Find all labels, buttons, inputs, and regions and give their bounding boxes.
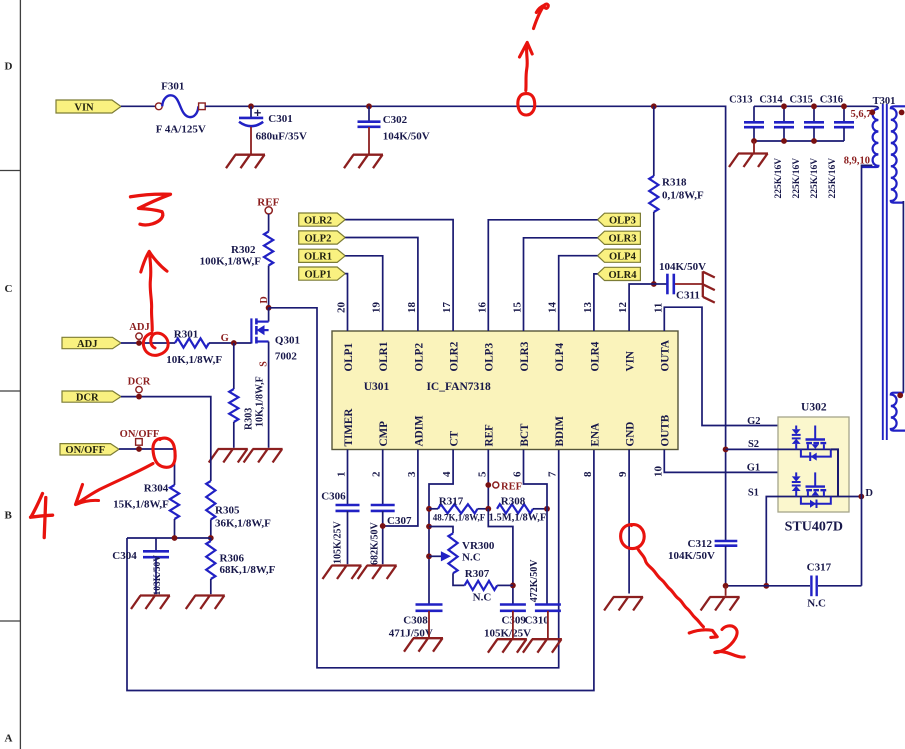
svg-text:OLR4: OLR4: [589, 341, 601, 371]
IC U302 body: [778, 417, 849, 512]
fuse F301 right pad: [199, 103, 206, 110]
ground R303: [209, 449, 248, 463]
transistor Q301: [268, 308, 270, 322]
ground C311 rotated: [703, 271, 715, 302]
annotation red arrow from ON/OFF: [76, 464, 154, 505]
capacitor C302: [368, 106, 370, 121]
annotation red 3: [131, 194, 171, 225]
junction dots capacitor bank: [781, 103, 787, 109]
capacitor C310: [535, 603, 561, 606]
net label ON/OFF: [60, 444, 119, 455]
wire OLP1 to pin: [345, 274, 347, 331]
svg-text:225K/16V: 225K/16V: [792, 158, 802, 199]
node junction S1: [763, 583, 769, 589]
node junction R307 right: [510, 583, 516, 589]
transformer T301 primary winding: [862, 109, 879, 167]
svg-text:17: 17: [441, 302, 453, 314]
svg-text:S: S: [258, 361, 269, 367]
resistor R308: [497, 504, 533, 513]
wire OLP2 to pin: [345, 238, 418, 332]
svg-text:G: G: [221, 333, 229, 344]
node junction pin3/C307: [380, 523, 386, 529]
resistor R301: [175, 338, 209, 347]
svg-text:OLP2: OLP2: [305, 233, 332, 244]
svg-text:225K/16V: 225K/16V: [810, 158, 820, 199]
wire OLP3 to pin: [488, 220, 597, 331]
svg-text:OLP1: OLP1: [343, 343, 355, 372]
svg-text:C302: C302: [383, 114, 408, 126]
wire capacitor bank bottom bus: [754, 140, 844, 142]
node junction C312/ground: [723, 583, 729, 589]
wire pin6 BCT jog: [524, 450, 548, 509]
svg-text:36K,1/8W,F: 36K,1/8W,F: [215, 517, 271, 529]
potentiometer VR300: [448, 533, 457, 573]
annotation red circle on ADJ: [143, 333, 168, 355]
resistor R305: [206, 481, 215, 519]
svg-text:OLP3: OLP3: [484, 343, 496, 372]
svg-text:7002: 7002: [275, 351, 298, 363]
svg-text:REF: REF: [501, 482, 522, 493]
annotation red arrow to ADJ: [141, 251, 167, 330]
transformer secondary upper winding: [891, 106, 905, 202]
annotation red rect on ON/OFF: [153, 438, 175, 467]
net label OLR3: [598, 231, 641, 244]
ground capacitor bank: [729, 154, 768, 168]
fuse F301 left pad: [155, 103, 162, 110]
svg-text:C312: C312: [688, 538, 713, 550]
ground Q301 source: [244, 449, 283, 463]
node junction ON/OFF pad: [136, 446, 142, 452]
svg-text:OLR1: OLR1: [304, 252, 332, 263]
wire OLR4 to pin: [594, 274, 598, 331]
wire C301 to ground: [250, 127, 252, 155]
svg-text:C314: C314: [759, 94, 783, 105]
svg-text:T301: T301: [873, 96, 896, 107]
svg-text:OLR3: OLR3: [519, 341, 531, 371]
svg-text:C304: C304: [112, 550, 137, 562]
resistor R307: [465, 581, 498, 590]
svg-text:DCR: DCR: [128, 376, 151, 387]
net label OLP2: [299, 231, 346, 244]
svg-text:C306: C306: [321, 491, 346, 503]
annotation red arrow to 2: [638, 549, 717, 638]
svg-text:1.5M,1/8W,F: 1.5M,1/8W,F: [489, 513, 547, 524]
wire ADJ row: [121, 342, 175, 344]
wire top rail: [205, 105, 725, 107]
annotation red circle on rail: [518, 94, 535, 115]
svg-text:OLP4: OLP4: [609, 252, 637, 263]
svg-text:R304: R304: [144, 483, 169, 495]
svg-text:OLP4: OLP4: [554, 343, 566, 372]
svg-text:105K/25V: 105K/25V: [484, 628, 531, 640]
svg-text:3: 3: [406, 471, 418, 477]
svg-text:N.C: N.C: [473, 592, 492, 604]
svg-text:F 4A/125V: F 4A/125V: [156, 124, 206, 136]
wire S1 riser: [766, 497, 861, 586]
ground bottom node: [725, 586, 727, 596]
node junction R317 left: [426, 506, 432, 512]
annotation red 4: [31, 494, 53, 538]
svg-text:C315: C315: [790, 94, 813, 105]
ground C306: [323, 566, 362, 580]
svg-text:R306: R306: [220, 552, 245, 564]
wire pin12 VIN to C311 node: [629, 284, 654, 331]
svg-text:18: 18: [406, 302, 418, 314]
transformer core: [882, 104, 884, 440]
capacitor C315: [813, 106, 815, 122]
node junction C301 on rail: [248, 103, 254, 109]
svg-text:D: D: [865, 488, 873, 499]
svg-text:G2: G2: [747, 416, 760, 427]
svg-text:R318: R318: [662, 177, 687, 189]
svg-text:5: 5: [476, 471, 488, 477]
wire secondary link: [902, 201, 904, 393]
svg-text:REF: REF: [484, 424, 496, 447]
resistor R317: [438, 504, 477, 513]
svg-text:1: 1: [336, 472, 348, 478]
svg-text:10K,1/8W,F: 10K,1/8W,F: [166, 354, 222, 366]
wire D to transformer: [862, 165, 873, 585]
svg-text:R307: R307: [465, 568, 490, 580]
wire S2 from VIN line: [723, 447, 729, 453]
svg-text:TIMER: TIMER: [343, 408, 355, 447]
svg-text:100K,1/8W,F: 100K,1/8W,F: [200, 256, 262, 268]
svg-text:R308: R308: [501, 496, 526, 508]
upper MOSFET of U302: [795, 426, 797, 430]
capacitor C316: [843, 106, 845, 122]
annotation red circle pin9: [621, 525, 645, 549]
svg-text:12: 12: [617, 302, 629, 314]
svg-text:15K,1/8W,F: 15K,1/8W,F: [113, 499, 169, 511]
wire OLR3 to pin: [524, 238, 598, 331]
wire pin3 ADIM to C307 leg: [383, 450, 418, 527]
node junction G: [231, 340, 237, 346]
svg-text:VIN: VIN: [74, 102, 94, 113]
ruler tick 2: [0, 390, 20, 392]
wire OLP4 to pin: [559, 256, 598, 331]
svg-text:OLP2: OLP2: [413, 343, 425, 372]
wire node row y538: [127, 537, 211, 539]
wire node D to pin7 loop: [269, 308, 559, 668]
wire pin4 CT down: [429, 450, 453, 605]
wire R301 to gate: [209, 342, 251, 344]
node junction VR300 wiper: [426, 553, 432, 559]
svg-text:ADIM: ADIM: [413, 415, 425, 447]
node junction R304: [172, 535, 178, 541]
svg-text:8: 8: [582, 471, 594, 477]
svg-text:682K/50V: 682K/50V: [370, 521, 381, 565]
wire pin10 OUTB to G1: [664, 450, 815, 473]
resistor R306: [210, 538, 212, 541]
svg-text:Q301: Q301: [275, 334, 300, 346]
svg-text:R303: R303: [244, 408, 255, 430]
svg-text:OLR4: OLR4: [608, 270, 637, 281]
svg-text:225K/16V: 225K/16V: [774, 158, 784, 199]
svg-text:7: 7: [547, 471, 559, 477]
ground C304: [131, 596, 170, 610]
ground C309: [488, 639, 527, 653]
wire OLR1 to pin: [345, 256, 383, 331]
svg-text:15: 15: [512, 302, 524, 314]
capacitor C306 on pin1: [347, 450, 349, 506]
resistor R318: [653, 106, 655, 176]
resistor R303: [233, 343, 235, 389]
wire bottom node row: [726, 585, 810, 587]
ground R306: [186, 596, 225, 610]
svg-text:R301: R301: [174, 329, 198, 341]
net label OLR2: [299, 213, 346, 226]
capacitor C311: [666, 274, 669, 295]
net label VIN: [56, 100, 121, 113]
capacitor C312: [715, 540, 738, 543]
svg-text:F301: F301: [161, 81, 184, 93]
wire Q301 source to ground: [268, 342, 270, 448]
wire VIN to fuse: [121, 105, 155, 107]
node junction DCR pad: [136, 394, 142, 400]
transformer secondary lower winding: [891, 393, 905, 431]
ground C301: [226, 155, 265, 169]
node junction D: [858, 494, 864, 500]
wire R307 right lead: [497, 584, 513, 586]
svg-text:BCT: BCT: [519, 423, 531, 447]
wire VR300 top branch: [429, 527, 453, 534]
capacitor C317: [810, 576, 812, 597]
capacitor C308: [416, 603, 443, 606]
svg-text:104K/50V: 104K/50V: [668, 550, 715, 562]
wire C308 to ground: [428, 611, 430, 637]
svg-text:680uF/35V: 680uF/35V: [256, 131, 307, 143]
ground C302: [344, 155, 383, 169]
node secondary top: [899, 110, 905, 116]
wire upper drain to D: [831, 449, 838, 496]
wire VR300 to R307: [453, 573, 465, 585]
ground C307: [358, 566, 397, 580]
svg-text:A: A: [5, 733, 13, 745]
svg-text:ADJ: ADJ: [77, 339, 97, 350]
net label OLP4: [598, 249, 641, 262]
svg-text:C: C: [5, 283, 13, 295]
svg-text:C316: C316: [820, 94, 843, 105]
net label OLR1: [299, 249, 346, 262]
wire OLR2 to pin: [345, 220, 453, 331]
svg-text:CT: CT: [449, 430, 461, 446]
capacitor C301 polarized: [250, 106, 252, 117]
svg-text:C309: C309: [501, 615, 526, 627]
ground pin9: [604, 597, 643, 611]
svg-text:10K,1/8W,F: 10K,1/8W,F: [255, 376, 266, 427]
wire R305 to node: [210, 520, 212, 539]
svg-text:R302: R302: [231, 244, 256, 256]
wire pin5 node to VR300 branch: [488, 509, 513, 605]
wire R308 right lead: [533, 508, 547, 510]
wire R302 to node D: [268, 266, 270, 308]
wire ENA loop: [127, 450, 594, 691]
wire pin9 GND to ground: [628, 450, 630, 594]
svg-text:0,1/8W,F: 0,1/8W,F: [662, 190, 704, 202]
node D Q301 drain: [266, 305, 272, 311]
wire C306 to ground: [347, 511, 349, 564]
wire C302 to ground: [368, 127, 370, 155]
net label OLP3: [598, 213, 641, 226]
node junction VIN pin12 / C311: [651, 281, 657, 287]
svg-text:225K/16V: 225K/16V: [828, 158, 838, 199]
wire capacitor bank top bus: [754, 106, 878, 108]
svg-text:14: 14: [547, 302, 559, 314]
node junction R318 on rail: [651, 103, 657, 109]
svg-text:16: 16: [476, 302, 488, 314]
svg-text:GND: GND: [625, 422, 637, 447]
wire C304 to ground: [155, 558, 157, 595]
wire R304 to node row: [174, 519, 176, 538]
svg-text:ON/OFF: ON/OFF: [65, 445, 105, 456]
capacitor C314: [783, 106, 785, 122]
svg-text:OLR1: OLR1: [378, 341, 390, 371]
IC U301 body: [332, 331, 678, 450]
node secondary lower top: [897, 392, 903, 398]
wire node to C311: [654, 283, 667, 285]
svg-text:IC_FAN7318: IC_FAN7318: [426, 381, 491, 393]
node junction R308 right: [544, 506, 550, 512]
svg-text:19: 19: [371, 302, 383, 314]
svg-text:U301: U301: [364, 381, 390, 393]
svg-text:C317: C317: [807, 562, 832, 574]
net label DCR: [62, 391, 121, 402]
capacitor C309: [500, 603, 526, 606]
svg-text:68K,1/8W,F: 68K,1/8W,F: [220, 564, 276, 576]
ruler tick 3: [0, 620, 20, 622]
svg-text:48.7K,1/8W,F: 48.7K,1/8W,F: [433, 513, 486, 523]
wire C310 to ground: [547, 611, 549, 638]
ruler tick 1: [0, 170, 20, 172]
node junction REF tap: [485, 482, 491, 488]
wire R308 node to C310: [546, 509, 548, 605]
svg-text:5,6,7: 5,6,7: [851, 109, 872, 120]
svg-text:OUTB: OUTB: [660, 414, 672, 446]
svg-text:OLP3: OLP3: [609, 216, 636, 227]
svg-text:DCR: DCR: [76, 393, 99, 404]
svg-text:N.C: N.C: [462, 552, 481, 564]
annotation red 1: [534, 4, 549, 28]
svg-text:G1: G1: [747, 462, 760, 473]
resistor R304: [170, 485, 179, 519]
net label OLR4: [598, 267, 641, 280]
annotation red 2: [715, 626, 744, 657]
svg-text:R305: R305: [215, 505, 240, 517]
node junction C302 on rail: [366, 103, 372, 109]
wire pin5 REF down: [487, 450, 489, 509]
svg-text:U302: U302: [801, 402, 827, 414]
svg-text:20: 20: [336, 302, 348, 314]
svg-text:OLR3: OLR3: [608, 234, 636, 245]
node junction VR300 top: [426, 524, 432, 530]
svg-text:9: 9: [617, 471, 629, 477]
svg-text:VR300: VR300: [462, 540, 495, 552]
wire C309 to ground: [512, 611, 514, 638]
svg-text:CMP: CMP: [378, 421, 390, 447]
wire VIN vertical to U302/C312: [725, 106, 727, 541]
wire R306 to ground: [210, 579, 212, 594]
fuse F301: [162, 95, 198, 117]
svg-text:103K/50V: 103K/50V: [153, 555, 163, 596]
svg-text:4: 4: [441, 471, 453, 477]
svg-text:13: 13: [582, 302, 594, 314]
node junction R317/R308: [485, 506, 491, 512]
wire DCR row: [121, 397, 211, 481]
svg-text:C310: C310: [524, 615, 549, 627]
wire C307 to ground: [382, 511, 384, 564]
ground C308: [404, 638, 443, 652]
svg-text:ADJ: ADJ: [129, 322, 149, 333]
svg-text:C313: C313: [729, 94, 752, 105]
svg-text:OLP1: OLP1: [305, 270, 332, 281]
svg-text:104K/50V: 104K/50V: [383, 131, 430, 143]
wire bank ground stub: [753, 141, 755, 153]
annotation red arrow down to rail: [520, 43, 533, 91]
svg-text:104K/50V: 104K/50V: [659, 261, 706, 273]
svg-text:STU407D: STU407D: [785, 519, 843, 534]
ground C310: [523, 639, 562, 653]
node junction ADJ pad: [136, 340, 142, 346]
capacitor C304: [155, 538, 157, 551]
svg-text:VIN: VIN: [625, 351, 637, 372]
resistor R302: [268, 214, 270, 232]
node junction R305/R306: [208, 535, 214, 541]
svg-text:R317: R317: [439, 496, 464, 508]
svg-text:11: 11: [652, 303, 664, 313]
svg-text:C311: C311: [676, 289, 700, 301]
capacitor C313: [753, 106, 755, 122]
svg-text:6: 6: [512, 471, 524, 477]
svg-text:BDIM: BDIM: [554, 416, 566, 447]
svg-text:472K/50V: 472K/50V: [529, 559, 540, 603]
wire C311 to ground: [675, 283, 703, 285]
svg-text:OLR2: OLR2: [449, 341, 461, 371]
svg-text:ENA: ENA: [589, 423, 601, 447]
net label OLP1: [299, 267, 346, 280]
lower MOSFET of U302: [795, 472, 797, 476]
svg-text:D: D: [259, 296, 270, 303]
svg-text:2: 2: [371, 471, 383, 477]
wire OUTA to G2: [664, 307, 815, 425]
capacitor C307 on pin2: [382, 450, 384, 506]
svg-text:B: B: [5, 510, 13, 522]
wire R317 leads: [429, 508, 438, 510]
node primary top: [869, 109, 875, 115]
svg-text:C308: C308: [403, 615, 428, 627]
wire R318 to C311 node: [653, 212, 655, 284]
svg-text:105K/25V: 105K/25V: [333, 520, 344, 564]
svg-text:10: 10: [652, 466, 664, 478]
svg-text:OLR2: OLR2: [304, 216, 332, 227]
wire C312 to node: [725, 546, 727, 586]
svg-text:D: D: [5, 61, 13, 73]
wire ON/OFF row: [119, 449, 175, 485]
sheet border ruler line: [19, 0, 21, 749]
svg-text:N.C: N.C: [807, 597, 826, 609]
wire R303 to ground: [233, 422, 235, 448]
svg-text:OUTA: OUTA: [660, 340, 672, 372]
net label ADJ: [62, 337, 121, 348]
svg-text:C301: C301: [268, 113, 292, 125]
svg-text:S1: S1: [748, 488, 759, 499]
